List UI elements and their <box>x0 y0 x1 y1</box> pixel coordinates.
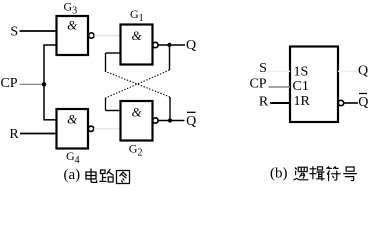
svg-text:(b): (b) <box>270 166 288 182</box>
wire CP to G4 upper input <box>43 119 57 121</box>
svg-text:Q: Q <box>358 95 368 110</box>
svg-text:&: & <box>67 18 78 33</box>
svg-text:1R: 1R <box>294 94 311 109</box>
wire G2 output to Qbar <box>158 120 184 122</box>
svg-text:R: R <box>9 127 19 142</box>
svg-text:&: & <box>131 105 142 120</box>
wire Qbar feedback left vertical <box>105 53 107 72</box>
wire CP input (gray) <box>269 86 291 88</box>
wire Q output (very light) <box>338 70 358 72</box>
wire CP to G3 lower input <box>43 44 57 46</box>
wire CP horizontal (gray) <box>20 83 45 85</box>
svg-text:Q: Q <box>186 114 196 129</box>
bubble Qbar output <box>338 100 343 105</box>
symbol box U1 <box>290 47 338 123</box>
bubble G1 output <box>153 42 158 47</box>
wire Q feedback diagonal <box>106 70 170 98</box>
svg-text:S: S <box>10 25 18 40</box>
svg-text:CP: CP <box>249 76 266 91</box>
junction Qbar node <box>168 118 172 122</box>
bubble G3 output <box>89 33 94 38</box>
wire G3 to G1 (light) <box>94 35 120 37</box>
wire Qbar output <box>344 102 358 104</box>
bubble G4 output <box>88 126 93 131</box>
wire Q feedback vertical <box>169 45 171 70</box>
svg-text:(a): (a) <box>64 167 81 183</box>
svg-text:&: & <box>67 112 78 127</box>
svg-text:CP: CP <box>0 76 17 91</box>
wire S to G3 upper input <box>20 30 58 32</box>
wire G4 to G2 (light) <box>94 128 121 130</box>
caption (b) CJK 逻辑符号 <box>294 167 357 181</box>
nand gate G2 <box>121 101 153 141</box>
wire Qbar feedback into G1 lower input <box>106 52 121 54</box>
wire Qbar feedback diagonal <box>106 72 171 98</box>
svg-text:&: & <box>131 28 142 43</box>
junction Q node <box>167 43 171 47</box>
wire S input (very light) <box>268 70 290 72</box>
caption (a) CJK 电路图 <box>86 169 130 184</box>
wire Qbar feedback vertical <box>169 97 171 121</box>
nand gate G3 <box>57 16 89 55</box>
svg-text:Q: Q <box>358 64 368 79</box>
wire R to G4 lower input <box>20 133 57 135</box>
bubble G2 output <box>153 118 158 123</box>
wire Q feedback left vertical <box>105 98 107 111</box>
nand gate G4 <box>57 109 89 149</box>
svg-text:R: R <box>259 95 269 110</box>
svg-text:S: S <box>259 61 267 76</box>
wire Q feedback into G2 upper input <box>106 110 121 112</box>
wire CP vertical bus <box>43 45 45 120</box>
svg-text:1S: 1S <box>294 64 309 79</box>
junction CP node <box>42 82 46 86</box>
svg-text:C1: C1 <box>293 79 309 94</box>
wire G1 output to Q <box>158 44 185 46</box>
wire R input <box>270 102 290 104</box>
svg-text:Q: Q <box>186 38 196 53</box>
nand gate G1 <box>121 25 153 65</box>
